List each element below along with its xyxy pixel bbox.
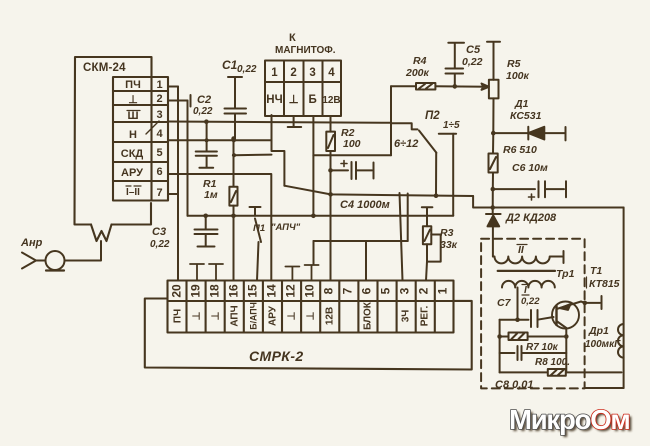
wire: R6 down to C6 node bbox=[492, 173, 494, 190]
svg-text:1м: 1м bbox=[204, 189, 218, 201]
capacitor C1 stem and plates bbox=[225, 77, 247, 139]
SMRK-2 pin strip frame bbox=[168, 281, 454, 333]
capacitor on feedback line bbox=[500, 346, 567, 360]
transformer core line bbox=[498, 270, 555, 272]
resistor R2 vertical body bbox=[326, 132, 335, 151]
antenna jack circle bbox=[46, 251, 65, 270]
wire: vertical bus pin1->SMRK pin20 bbox=[177, 87, 179, 281]
node dot C6 junction bbox=[491, 187, 496, 192]
svg-text:6: 6 bbox=[156, 166, 162, 178]
svg-text:0,22: 0,22 bbox=[150, 239, 170, 250]
wire: module top line L7 bbox=[473, 196, 623, 208]
resistor R5 vertical body bbox=[489, 80, 499, 99]
tuner block SKM-24 outer box bbox=[75, 57, 152, 225]
svg-text:"АПЧ": "АПЧ" bbox=[271, 222, 301, 233]
SMRK-2 pin names rotated bbox=[173, 301, 431, 330]
svg-text:100к: 100к bbox=[506, 70, 530, 82]
wire: winding I tap down to base line bbox=[517, 288, 519, 320]
transformer Tr1 secondary winding II bbox=[493, 251, 564, 263]
svg-text:R3: R3 bbox=[440, 227, 454, 239]
SKM pin numbers bbox=[156, 79, 163, 199]
svg-text:⊥: ⊥ bbox=[192, 311, 203, 320]
svg-text:⊥: ⊥ bbox=[287, 311, 298, 320]
svg-text:2: 2 bbox=[156, 93, 162, 105]
node dot emitter junction bbox=[564, 334, 569, 339]
svg-text:19: 19 bbox=[189, 284, 203, 298]
capacitor drop stem from L1 through L2 bbox=[206, 122, 208, 151]
capacitor C1 top tick bbox=[228, 76, 242, 78]
wire: connector pin2 ground stub bbox=[293, 116, 295, 127]
svg-text:R4: R4 bbox=[413, 55, 427, 67]
svg-text:7: 7 bbox=[156, 187, 162, 199]
svg-text:⊥: ⊥ bbox=[289, 94, 299, 106]
diode D2 KD208 bbox=[486, 213, 501, 215]
dashed oscillator module box bbox=[481, 239, 584, 389]
terminal bar above pin19 bbox=[190, 264, 204, 281]
svg-text:С2: С2 bbox=[197, 94, 211, 106]
transformer Tr1 primary winding I bbox=[502, 281, 555, 288]
wire L1: SKM pin3 line to tape connector pin1 bbox=[168, 122, 391, 123]
svg-text:3: 3 bbox=[398, 287, 412, 294]
capacitor C2 plate bar bbox=[190, 95, 192, 107]
wire: collector to terminal bar bbox=[581, 296, 602, 309]
SKM-24 pin table frame bbox=[113, 77, 168, 201]
svg-text:НЧ: НЧ bbox=[266, 94, 282, 106]
svg-text:Б/АПЧ: Б/АПЧ bbox=[249, 302, 259, 330]
node dot cap drop on L5 bbox=[203, 214, 208, 219]
capacitor C4 electrolytic bbox=[331, 162, 374, 179]
svg-text:12: 12 bbox=[284, 284, 298, 298]
wire L5: long AFC line across schematic bbox=[188, 215, 454, 217]
svg-text:R8 100.: R8 100. bbox=[535, 357, 570, 368]
wire: branch down to SMRK pin6 bbox=[365, 241, 367, 281]
wire: C2 node down to AFC line bbox=[187, 101, 189, 216]
wire: C1/R1 node to NCh jog bbox=[234, 154, 272, 157]
node dot R1 column at L2 bbox=[232, 138, 236, 142]
svg-text:Др1: Др1 bbox=[588, 325, 609, 337]
svg-text:6÷12: 6÷12 bbox=[394, 138, 418, 150]
wire: R4 to C5 node with wiper arrow into R5 bbox=[435, 84, 489, 90]
transistor T1 emitter lead with arrow toward base bbox=[557, 302, 582, 310]
svg-text:Н: Н bbox=[129, 129, 137, 141]
svg-text:3: 3 bbox=[309, 67, 315, 79]
svg-text:33к: 33к bbox=[440, 239, 458, 251]
svg-text:4: 4 bbox=[156, 128, 163, 140]
svg-text:0,22: 0,22 bbox=[237, 64, 257, 75]
svg-text:12В: 12В bbox=[325, 307, 336, 325]
svg-text:I–II: I–II bbox=[126, 187, 140, 198]
wire B: C4 box right drop bbox=[407, 194, 409, 242]
svg-text:1: 1 bbox=[156, 79, 162, 91]
tape connector box K magnitof bbox=[265, 61, 341, 117]
svg-text:ПЧ: ПЧ bbox=[125, 79, 141, 91]
svg-text:1: 1 bbox=[271, 67, 278, 79]
svg-text:С5: С5 bbox=[466, 44, 481, 56]
resistor R1 vertical body bbox=[229, 139, 237, 206]
wire A: C4 box to SMRK pin3 bbox=[400, 193, 403, 281]
terminal bar above pin12 bbox=[285, 267, 299, 281]
wire: right edge of selector box bbox=[390, 123, 392, 155]
node dot C5 junction bbox=[453, 84, 458, 89]
capacitor C5: top tick stem plates bbox=[446, 43, 465, 87]
wire: left rail of module bbox=[499, 320, 501, 373]
ground bar under connector pin2 bbox=[288, 126, 302, 128]
node dot base line tap bbox=[515, 317, 520, 322]
SMRK-2 pin strip column lines bbox=[187, 281, 435, 333]
node dot C4 tap bbox=[328, 168, 333, 173]
node dot L5 to P2 wire corner bbox=[452, 195, 454, 197]
svg-text:1: 1 bbox=[436, 287, 450, 294]
svg-text:П1: П1 bbox=[253, 223, 265, 234]
svg-text:Д2 КД208: Д2 КД208 bbox=[505, 212, 557, 224]
switch P1 fixed contact bbox=[250, 207, 261, 216]
node dot left rail R7 bbox=[497, 334, 502, 339]
wire: SKM pin1 stub bbox=[168, 86, 178, 88]
svg-text:0,22: 0,22 bbox=[193, 106, 213, 117]
svg-text:Т1: Т1 bbox=[590, 265, 602, 277]
wire: D1 node down to R6 bbox=[492, 133, 494, 153]
svg-text:АРУ: АРУ bbox=[268, 305, 279, 326]
selector box around R2 bottom edge bbox=[313, 154, 391, 156]
band-switch arrow annotation bbox=[146, 121, 159, 134]
node dot P2/L6 bbox=[434, 193, 439, 198]
svg-text:РЕГ.: РЕГ. bbox=[420, 306, 431, 327]
wire: SKM pin7 stub to bus bbox=[168, 193, 178, 195]
plus sign of C6 bbox=[529, 194, 535, 200]
node dot crossing module top line bbox=[490, 205, 495, 210]
connector pin numbers bbox=[266, 67, 340, 106]
svg-text:С4 1000м: С4 1000м bbox=[340, 199, 390, 211]
transistor T1 base bar bbox=[555, 306, 557, 325]
capacitor under L5: stem plates and bar bbox=[195, 216, 218, 247]
svg-text:КС531: КС531 bbox=[510, 110, 542, 122]
svg-text:6: 6 bbox=[360, 287, 374, 294]
wire: connector pin4 12V stub to R2 bbox=[330, 116, 332, 132]
svg-text:С3: С3 bbox=[152, 226, 166, 238]
svg-text:II: II bbox=[518, 244, 525, 256]
wire: P1 to SMRK pin15 bbox=[257, 242, 259, 281]
wire: R1 bottom to SMRK pin16 bbox=[233, 206, 235, 281]
svg-text:3: 3 bbox=[156, 109, 162, 121]
wire: 1-5 contact down to L5 bbox=[452, 134, 454, 216]
node dot stem/L2 bbox=[205, 138, 209, 142]
wire: base line with capacitor bbox=[500, 310, 554, 327]
svg-text:16: 16 bbox=[227, 284, 241, 298]
svg-text:3Ч: 3Ч bbox=[401, 310, 412, 323]
wire: branch down to pin10 termination bbox=[313, 241, 315, 265]
wire: module right edge bbox=[623, 208, 625, 389]
transistor T1 collector lead down bbox=[557, 321, 567, 328]
wire: emitter down to bottom rail bbox=[565, 328, 567, 372]
antenna plug fork bbox=[22, 253, 46, 269]
svg-text:2: 2 bbox=[417, 287, 431, 294]
resistor R6 vertical body bbox=[489, 154, 498, 173]
svg-text:МикроОм: МикроОм bbox=[509, 404, 630, 435]
node dot R1 column y155 bbox=[232, 153, 236, 157]
svg-text:СКМ-24: СКМ-24 bbox=[83, 62, 126, 74]
svg-text:С8 0,01: С8 0,01 bbox=[495, 379, 534, 391]
node dot C1 on L2 bbox=[231, 136, 236, 141]
svg-text:18: 18 bbox=[208, 284, 222, 298]
svg-text:1÷5: 1÷5 bbox=[443, 120, 460, 131]
wire: P2 common down to L6 bbox=[435, 153, 437, 196]
svg-text:200к: 200к bbox=[405, 67, 430, 79]
svg-text:С7: С7 bbox=[497, 297, 512, 309]
svg-text:⊥: ⊥ bbox=[128, 94, 138, 106]
wire: R2 bottom down to SMRK pin8 bbox=[330, 151, 332, 281]
svg-text:8: 8 bbox=[322, 287, 336, 294]
svg-text:С6 10м: С6 10м bbox=[512, 162, 548, 174]
wire: R3 bottom to SMRK pin2 bbox=[426, 244, 427, 280]
svg-text:15: 15 bbox=[246, 284, 260, 298]
svg-text:СКД: СКД bbox=[121, 148, 144, 160]
svg-text:20: 20 bbox=[170, 284, 184, 298]
svg-text:П2: П2 bbox=[425, 110, 440, 122]
svg-text:14: 14 bbox=[265, 284, 279, 298]
transistor T1 circle bbox=[552, 302, 579, 329]
wire L2: SKM pin4 line to NCh stub bbox=[168, 139, 272, 141]
svg-text:АРУ: АРУ bbox=[121, 167, 143, 179]
wire: antenna to SKM input bbox=[65, 241, 102, 261]
wire: R4 left lead down to P2 bbox=[391, 86, 418, 129]
svg-text:Ш: Ш bbox=[127, 110, 138, 122]
wire: C6 node down across box line bbox=[492, 189, 494, 213]
terminal bar above pin18 bbox=[209, 264, 223, 281]
svg-text:АПЧ: АПЧ bbox=[230, 305, 241, 326]
svg-text:0,22: 0,22 bbox=[521, 296, 540, 307]
svg-text:100: 100 bbox=[343, 138, 361, 150]
SKM pin names bbox=[121, 79, 144, 198]
capacitor plates below L2 bbox=[196, 152, 217, 168]
svg-text:0,22: 0,22 bbox=[462, 56, 483, 68]
plus sign of C4 bbox=[341, 161, 347, 167]
svg-text:С1: С1 bbox=[222, 58, 238, 72]
resistor R3 top tick and stem bbox=[422, 207, 433, 226]
svg-text:⊥: ⊥ bbox=[211, 311, 222, 320]
resistor R5 top tick and stem bbox=[487, 42, 500, 80]
resistor R7 horizontal body bbox=[500, 333, 567, 341]
svg-text:2: 2 bbox=[290, 67, 296, 79]
node dot collector bbox=[583, 301, 588, 306]
wire: branch line y241 bbox=[314, 240, 408, 242]
svg-text:БЛОК: БЛОК bbox=[363, 301, 374, 330]
SKM-24 table row lines bbox=[113, 91, 168, 181]
SMRK-2 pin strip divider row bbox=[168, 300, 454, 302]
svg-text:12В: 12В bbox=[322, 95, 340, 106]
svg-text:Тр1: Тр1 bbox=[556, 268, 575, 280]
svg-text:СМРК-2: СМРК-2 bbox=[249, 348, 304, 364]
svg-text:100мкГ: 100мкГ bbox=[585, 339, 621, 350]
svg-text:КТ815: КТ815 bbox=[589, 278, 620, 290]
svg-text:5: 5 bbox=[156, 147, 162, 159]
wire: module bottom edge bbox=[585, 387, 624, 389]
resistor R3 vertical body bbox=[423, 226, 431, 244]
svg-text:Анр: Анр bbox=[20, 237, 43, 249]
wire: R3 side loop bbox=[427, 235, 441, 262]
wire: D2 down into module to transformer bbox=[492, 226, 494, 256]
svg-text:10: 10 bbox=[303, 284, 317, 298]
switch P1 lever bbox=[255, 219, 261, 243]
node dot on L1 bbox=[204, 119, 209, 124]
terminal bar above pin10 bbox=[305, 265, 319, 281]
node dot D1 junction bbox=[491, 131, 496, 136]
svg-text:7: 7 bbox=[341, 287, 355, 294]
wire L3: SKM pin6 ARU line to SMRK pin14 bbox=[168, 174, 271, 281]
choke Dr1 on right rail bbox=[618, 324, 624, 358]
wire: NCh connector stub down + jog bbox=[272, 115, 285, 186]
switch P2 lever bbox=[419, 131, 436, 153]
svg-text:R6 510: R6 510 bbox=[503, 144, 537, 156]
svg-text:К: К bbox=[289, 32, 296, 44]
svg-text:МАГНИТОФ.: МАГНИТОФ. bbox=[275, 45, 336, 56]
wire: bottom rail with R8 bbox=[500, 369, 622, 376]
svg-text:⊥: ⊥ bbox=[306, 311, 317, 320]
svg-text:4: 4 bbox=[328, 67, 335, 79]
antenna input notch on SKM-24 bbox=[91, 225, 112, 242]
svg-text:Д1: Д1 bbox=[514, 98, 529, 110]
svg-text:ПЧ: ПЧ bbox=[173, 309, 184, 323]
svg-text:Б: Б bbox=[308, 94, 316, 106]
resistor R4 horizontal body bbox=[391, 83, 435, 90]
wire: SKM pin2 stub bbox=[168, 100, 188, 102]
SMRK-2 pin numbers rotated bbox=[170, 284, 450, 298]
svg-text:R7 10к: R7 10к bbox=[526, 342, 559, 353]
SMRK-2 module outer box bbox=[145, 299, 472, 370]
switch P2 1-5 contact tick bbox=[439, 133, 456, 135]
capacitor C6 electrolytic bbox=[493, 181, 566, 197]
svg-text:R5: R5 bbox=[507, 58, 521, 70]
wire L6: line from jog to P2 bbox=[284, 186, 473, 196]
wire: R5 down to D1 node bbox=[492, 98, 494, 133]
svg-text:I: I bbox=[524, 285, 527, 296]
diode D1 KS531 zener bbox=[493, 127, 565, 141]
antenna jack base tick bbox=[46, 269, 64, 271]
wire: connector pin3 B vertical down to AFC line bbox=[312, 116, 314, 216]
node dot P2 line / R2 column junction bbox=[328, 192, 333, 197]
svg-text:5: 5 bbox=[379, 287, 393, 294]
node dot B/L5 junction bbox=[311, 214, 316, 219]
node dot R1 line crossing L5 bbox=[231, 214, 236, 219]
